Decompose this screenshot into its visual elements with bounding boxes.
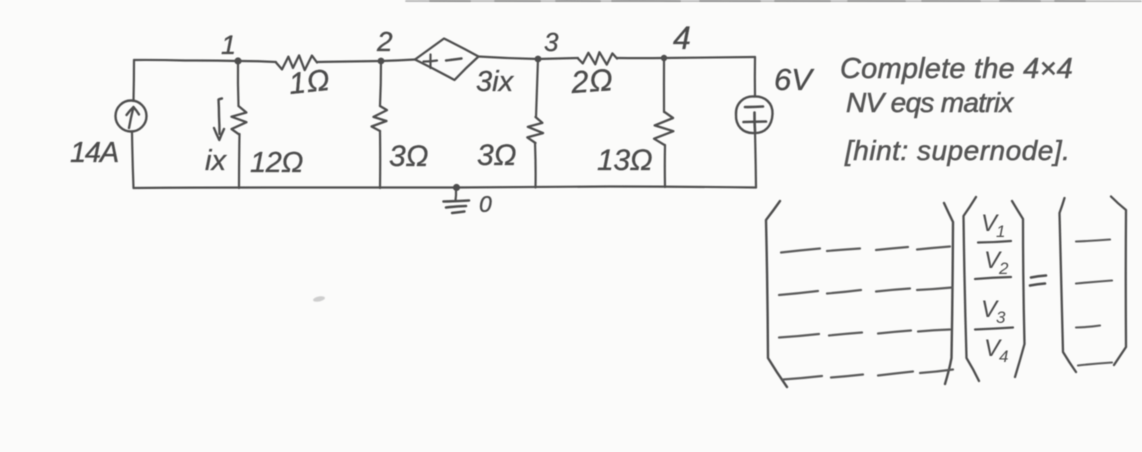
wire node 3 down <box>536 59 538 117</box>
label 0 <box>479 191 492 217</box>
matrix blank entry row4 col3 <box>878 372 913 376</box>
text line 3 <box>844 135 1070 166</box>
separator line 3 <box>975 328 1013 330</box>
label node 1 <box>221 30 236 60</box>
wire R4 to bottom rail <box>379 131 381 188</box>
resistor R4 3ohm vertical <box>372 106 388 131</box>
wire right vertical below source <box>755 133 756 188</box>
label 2ohm <box>569 62 614 100</box>
label 1ohm <box>287 64 332 101</box>
svg-text:1: 1 <box>221 30 236 60</box>
node 2 junction dot <box>378 58 385 65</box>
wire node 4 down <box>663 58 665 112</box>
current arrow ix <box>214 99 224 141</box>
result blank entry 3 <box>1076 326 1100 328</box>
label V2 <box>984 247 1009 278</box>
matrix blank entry row3 col2 <box>829 333 862 336</box>
wire node 2 down <box>380 61 381 106</box>
matrix blank entry row1 col3 <box>876 247 908 250</box>
svg-text:3Ω: 3Ω <box>389 140 429 173</box>
dependent source E1 diamond +- <box>415 39 479 81</box>
label node 2 <box>376 26 393 57</box>
label ix <box>205 145 227 177</box>
matrix blank entry row3 col3 <box>878 331 911 334</box>
matrix left bracket <box>766 201 787 387</box>
label 6V <box>774 62 815 97</box>
matrix blank entry row3 col4 <box>918 330 950 332</box>
node 1 junction dot <box>234 57 241 64</box>
svg-text:14A: 14A <box>70 137 118 169</box>
svg-text:3ix: 3ix <box>476 66 515 98</box>
result blank entry 4 <box>1078 363 1112 366</box>
scanner edge streak top <box>406 0 1141 2</box>
wire node 2 to dependent source <box>381 60 415 62</box>
svg-text:1: 1 <box>996 222 1005 241</box>
current source I1 14A <box>116 101 147 132</box>
label 3ix <box>476 66 515 98</box>
wire left vertical below source <box>132 132 134 189</box>
svg-text:Complete the 4×4: Complete the 4×4 <box>840 53 1073 85</box>
matrix blank entry row1 col4 <box>917 247 950 250</box>
wire node 1 down <box>237 61 240 106</box>
matrix blank entry row3 col1 <box>779 334 819 338</box>
matrix blank entry row2 col1 <box>779 291 818 295</box>
wire R1 to node 2 <box>317 61 381 62</box>
node 4 junction dot <box>661 55 667 61</box>
node 3 junction dot <box>535 56 542 63</box>
label node 3 <box>544 27 559 57</box>
svg-text:2: 2 <box>998 259 1009 278</box>
wire dependent source to node 3 <box>478 57 538 60</box>
resistor R1 1ohm horizontal <box>276 55 317 70</box>
wire R6 to bottom rail <box>664 145 666 187</box>
wire top-left to node 1 <box>134 60 238 61</box>
matrix right bracket <box>944 203 953 384</box>
result blank entry 1 <box>1076 240 1110 242</box>
svg-text:6V: 6V <box>774 62 815 97</box>
matrix blank entry row1 col2 <box>827 249 860 252</box>
svg-text:3: 3 <box>996 308 1006 327</box>
svg-text:ix: ix <box>205 145 227 177</box>
matrix blank entry row1 col1 <box>781 249 820 253</box>
ground symbol node 0 <box>444 184 470 213</box>
svg-text:4: 4 <box>673 20 691 56</box>
resistor R3 12ohm vertical <box>231 106 246 134</box>
label 13ohm <box>597 144 652 177</box>
matrix blank entry row2 col4 <box>917 288 952 291</box>
wire left vertical above source <box>132 60 135 101</box>
svg-text:12Ω: 12Ω <box>250 147 303 179</box>
scanner streak dark spots <box>430 0 1085 2</box>
resistor R6 13ohm vertical <box>654 112 673 145</box>
matrix blank entry row4 col2 <box>831 375 863 378</box>
V vector right bracket <box>1012 201 1025 377</box>
svg-text:0: 0 <box>479 191 492 217</box>
resistor R2 2ohm horizontal <box>578 52 617 64</box>
matrix blank entry row4 col1 <box>783 376 822 380</box>
wire node 4 to top-right corner <box>664 57 755 58</box>
result blank entry 2 <box>1076 281 1112 284</box>
label V3 <box>981 296 1006 327</box>
svg-text:13Ω: 13Ω <box>597 144 652 177</box>
wire R2 to node 4 <box>617 57 664 59</box>
svg-text:2: 2 <box>376 26 393 57</box>
matrix blank entry row2 col3 <box>876 289 910 292</box>
svg-text:4: 4 <box>999 347 1008 366</box>
svg-text:1Ω: 1Ω <box>287 64 332 101</box>
wire node 1 to R1 <box>238 61 276 62</box>
svg-text:3: 3 <box>544 27 559 57</box>
label 3ohm (R5) <box>477 139 517 172</box>
result vector left bracket <box>1060 198 1077 372</box>
separator line 2 <box>975 277 1011 279</box>
svg-text:2Ω: 2Ω <box>569 62 614 100</box>
voltage source V1 6V circle -+ <box>736 96 773 133</box>
matrix blank entry row2 col2 <box>827 290 861 294</box>
svg-text:NV eqs matrix: NV eqs matrix <box>846 87 1014 118</box>
result vector right bracket <box>1111 197 1126 366</box>
wire node 3 to R2 <box>538 58 578 59</box>
text line 1 <box>840 53 1073 85</box>
svg-text:3Ω: 3Ω <box>477 139 517 172</box>
resistor R5 3ohm vertical <box>527 117 543 143</box>
label V1 <box>981 210 1005 241</box>
separator line 1 <box>978 241 1011 243</box>
wire bottom rail <box>134 187 757 189</box>
label node 4 <box>673 20 691 56</box>
text line 2 <box>846 87 1014 118</box>
pencil smudge <box>313 295 326 302</box>
label 12ohm <box>250 147 303 179</box>
wire right vertical above source <box>754 57 756 97</box>
wire R5 to bottom rail <box>534 143 537 188</box>
wire R3 to bottom rail <box>238 134 241 188</box>
matrix blank entry row4 col4 <box>920 370 953 374</box>
equals sign <box>1030 276 1046 286</box>
label 3ohm (R4) <box>389 140 429 173</box>
label 14A <box>70 137 118 169</box>
label V4 <box>984 335 1008 366</box>
svg-text:[hint: supernode].: [hint: supernode]. <box>844 135 1070 166</box>
V vector left bracket <box>964 197 980 381</box>
